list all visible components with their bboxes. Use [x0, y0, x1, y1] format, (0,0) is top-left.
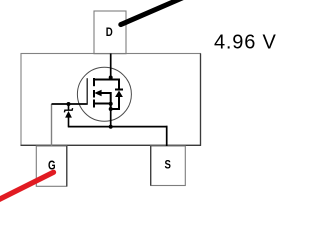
svg-text:S: S	[165, 158, 171, 172]
svg-text:G: G	[48, 158, 56, 172]
svg-text:D: D	[106, 27, 113, 39]
svg-text:4.96 V: 4.96 V	[214, 32, 277, 54]
